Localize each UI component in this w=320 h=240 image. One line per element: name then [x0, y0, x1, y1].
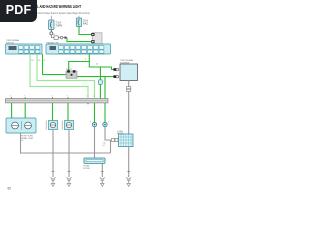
- svg-text:TURN: TURN: [56, 25, 63, 28]
- label: connector code near meter input: [103, 143, 106, 147]
- front turn signal light assembly: [6, 118, 36, 133]
- svg-text:3: 3: [108, 122, 109, 124]
- wire: drop from meter feed to y153 line: [110, 140, 112, 153]
- pin number labels on ladder wires: [31, 59, 98, 66]
- label: noise filter: [84, 165, 91, 169]
- ground symbol G2: [67, 177, 72, 186]
- svg-text:15: 15: [38, 60, 40, 62]
- svg-text:3: 3: [90, 122, 91, 124]
- connector ticks on ground wires: [52, 171, 131, 173]
- wire: C2 down then right to combination meter connector: [105, 127, 111, 140]
- wire: green from junction chain to hazard switch pin 2: [67, 38, 91, 42]
- ground symbol G1: [51, 177, 56, 186]
- svg-text:9: 9: [85, 59, 86, 61]
- wire: vertical drop with inline connector to junction bar: [99, 67, 101, 99]
- wire: stub from note to fuse F2: [78, 16, 80, 18]
- svg-text:From Power Source System (See: From Power Source System (See Page 20 an…: [38, 12, 90, 15]
- noise filter: [84, 158, 105, 163]
- connector strip A (combination switch): [6, 44, 43, 54]
- wire: bar to front turn signal light LH pin: [11, 103, 13, 118]
- wire: S1 ground run: [52, 130, 54, 178]
- side turn signal light S1: [46, 121, 58, 130]
- label: turn signal flasher: [120, 59, 134, 64]
- wire: noise filter to ground: [101, 163, 103, 177]
- label: front turn signal light: [21, 135, 35, 142]
- inline connector on drop wire: [99, 80, 106, 85]
- junction bar J/B: [6, 99, 109, 103]
- fuse F1 TURN 7.5A: [49, 20, 54, 30]
- wire: tap down to junction bar at x105: [104, 77, 106, 99]
- junction bar pin ticks: [12, 97, 95, 104]
- svg-text:1J: 1J: [53, 34, 55, 36]
- inline connector pair on right column: [127, 87, 131, 92]
- combination meter indicator (hatched box): [119, 134, 134, 147]
- svg-text:14: 14: [103, 145, 105, 147]
- page number: [8, 187, 12, 191]
- wire: F2 down and right to hazard switch pin 1: [79, 27, 91, 35]
- svg-text:4: 4: [10, 96, 11, 98]
- wire: strip A pin3 bright green to flasher line: [43, 54, 67, 75]
- wire: S2 ground run: [68, 130, 70, 178]
- wire: main turn line y76.6 to U1 pin 2: [66, 77, 114, 78]
- svg-text:HAZ: HAZ: [83, 23, 88, 26]
- wire: U1 ground wire down right column: [128, 81, 130, 135]
- wire: meter to ground: [128, 147, 130, 178]
- label: 7.5A TURN: [56, 22, 63, 28]
- wire: bar to round connector C1: [94, 103, 96, 123]
- note: power source reference text: [38, 12, 90, 15]
- svg-text:8: 8: [44, 60, 45, 62]
- svg-text:2: 2: [86, 96, 87, 98]
- label: combination switch A: [6, 39, 20, 44]
- wire: bar to round connector C2: [104, 103, 106, 123]
- label: hazard switch strip B: [47, 41, 59, 44]
- svg-text:7: 7: [24, 96, 25, 98]
- svg-text:60: 60: [8, 187, 12, 191]
- ground symbol G3: [100, 177, 105, 186]
- round connector C1: [90, 122, 97, 127]
- flasher component (relay with pins): [66, 68, 77, 78]
- svg-text:11: 11: [96, 64, 98, 66]
- svg-text:16: 16: [31, 60, 33, 62]
- hazard switch block: [91, 33, 102, 44]
- svg-text:RELAY: RELAY: [66, 68, 73, 71]
- junction bar pin number labels: [10, 96, 93, 98]
- round connector C2: [103, 122, 109, 127]
- svg-text:6: 6: [67, 96, 68, 98]
- wire: fuse F1 to connector circle: [50, 30, 52, 33]
- svg-text:5: 5: [51, 96, 52, 98]
- title: TURN SIGNAL AND HAZARD WARNING LIGHT: [20, 4, 81, 9]
- fuse F2 HAZ 15A: [76, 18, 81, 27]
- ground symbol G4: [126, 177, 131, 186]
- label: 15A HAZ: [83, 20, 88, 26]
- connector symbol into U1 pin 2: [114, 75, 119, 78]
- connector symbol into U1 pin 1: [114, 68, 119, 71]
- connector strip B (hazard switch): [46, 44, 111, 54]
- side turn signal light S2: [62, 121, 74, 130]
- wire: strip A pin1 light green ladder: [30, 54, 88, 99]
- wire: strip B pin1 elbow left: [69, 54, 90, 71]
- inline connector to combination meter: [112, 138, 119, 141]
- wire: bar to side turn signal light S2: [67, 103, 69, 121]
- PDF badge overlay: [0, 0, 37, 22]
- wire: stub from note to fuse F1: [50, 16, 52, 20]
- svg-text:FILTER: FILTER: [84, 168, 91, 170]
- wire: bar to side turn signal light S1: [52, 103, 54, 121]
- svg-text:1: 1: [93, 96, 94, 98]
- wire: horizontal feed to turn signal flasher U1 pin 1: [89, 62, 113, 70]
- wire: strip A pin2 light green ladder: [37, 54, 95, 99]
- wire: bar to front turn signal light pin 2: [24, 103, 26, 118]
- junction block chain J/B: [51, 34, 67, 39]
- wire: C1 down into noise filter: [94, 127, 96, 158]
- wire: front light down then right along y153: [21, 133, 111, 153]
- connector circle below F1: [50, 32, 53, 35]
- label: combination meter: [117, 131, 124, 135]
- turn signal flasher U1: [120, 64, 138, 81]
